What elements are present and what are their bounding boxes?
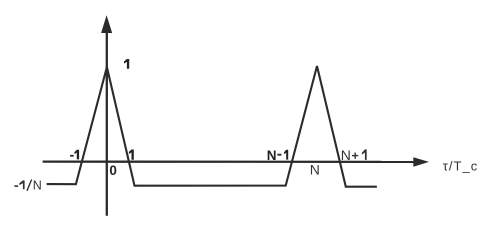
svg-text:0: 0	[109, 163, 117, 178]
svg-text:N: N	[33, 178, 42, 192]
svg-text:τ/T_c: τ/T_c	[443, 159, 478, 174]
svg-text:N: N	[341, 147, 351, 163]
svg-text:N: N	[310, 162, 320, 178]
svg-text:N: N	[267, 148, 277, 163]
